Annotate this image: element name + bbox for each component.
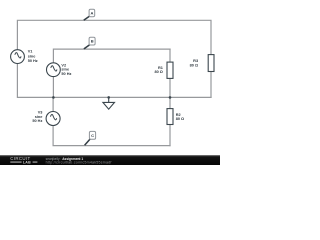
svg-text:LAB: LAB xyxy=(23,160,31,164)
svg-text:50 Hz: 50 Hz xyxy=(61,72,71,76)
svg-text:80 Ω: 80 Ω xyxy=(154,70,162,74)
svg-text:80 Ω: 80 Ω xyxy=(190,63,198,67)
svg-text:R2: R2 xyxy=(176,113,181,117)
svg-text:http://circuitlab.com/c5m4ak55: http://circuitlab.com/c5m4ak55smadf xyxy=(46,161,112,165)
svg-text:sine: sine xyxy=(61,68,69,72)
svg-text:B: B xyxy=(91,39,94,44)
svg-text:V2: V2 xyxy=(61,63,66,67)
svg-text:C: C xyxy=(91,133,94,138)
svg-text:sine: sine xyxy=(28,54,36,58)
svg-text:A: A xyxy=(91,10,94,15)
svg-text:50 Hz: 50 Hz xyxy=(28,59,38,63)
svg-text:80 Ω: 80 Ω xyxy=(176,117,184,121)
svg-text:50 Hz: 50 Hz xyxy=(32,119,42,123)
